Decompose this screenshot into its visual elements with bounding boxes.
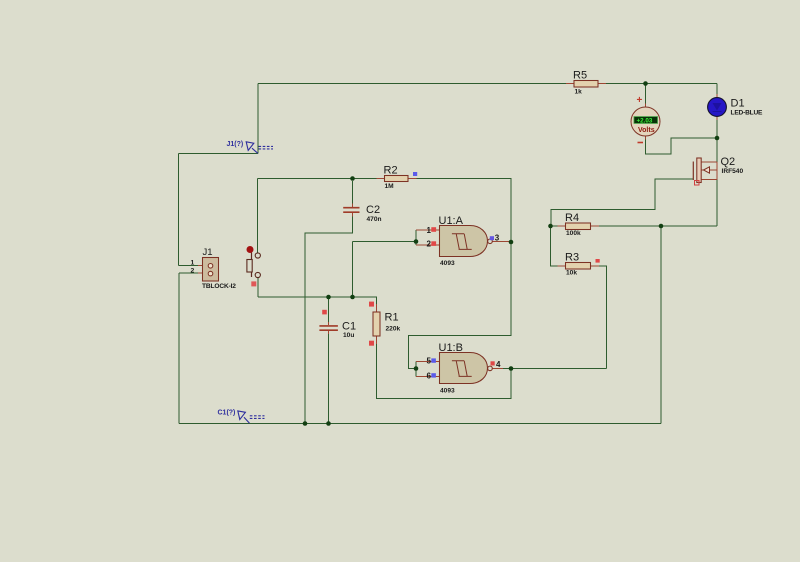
svg-text:220k: 220k [386, 326, 401, 333]
svg-text:3: 3 [495, 234, 500, 243]
svg-text:+2.03: +2.03 [637, 117, 653, 124]
svg-text:1M: 1M [385, 183, 395, 190]
svg-text:1: 1 [191, 260, 195, 267]
svg-text:R4: R4 [565, 212, 579, 224]
svg-text:R3: R3 [565, 252, 579, 264]
svg-text:5: 5 [427, 357, 432, 366]
svg-text:4093: 4093 [440, 260, 455, 267]
svg-text:C1(?): C1(?) [218, 410, 236, 417]
svg-text:IRF540: IRF540 [722, 168, 744, 175]
svg-text:TBLOCK-I2: TBLOCK-I2 [202, 283, 236, 290]
svg-text:C1: C1 [342, 321, 356, 333]
svg-text:1: 1 [427, 226, 432, 235]
svg-text:10k: 10k [566, 270, 577, 277]
svg-text:6: 6 [427, 372, 432, 381]
svg-text:2: 2 [427, 240, 432, 249]
svg-text:+: + [637, 95, 643, 106]
svg-text:4: 4 [496, 360, 501, 369]
svg-text:Volts: Volts [638, 127, 655, 134]
svg-text:1k: 1k [575, 89, 583, 96]
svg-text:D1: D1 [731, 98, 745, 110]
svg-text:2: 2 [191, 268, 195, 275]
svg-text:4093: 4093 [440, 388, 455, 395]
svg-text:C2: C2 [366, 204, 380, 216]
svg-text:470n: 470n [367, 216, 382, 223]
svg-text:U1:B: U1:B [439, 342, 463, 354]
svg-text:Q2: Q2 [721, 156, 736, 168]
svg-text:R2: R2 [384, 165, 398, 177]
svg-text:100k: 100k [566, 230, 581, 237]
svg-text:J1(?): J1(?) [227, 141, 244, 148]
svg-text:J1: J1 [203, 247, 213, 258]
svg-text:10u: 10u [343, 332, 354, 339]
svg-text:LED-BLUE: LED-BLUE [731, 110, 764, 117]
svg-text:U1:A: U1:A [439, 215, 464, 227]
svg-text:R5: R5 [573, 70, 587, 82]
svg-text:R1: R1 [385, 312, 399, 324]
